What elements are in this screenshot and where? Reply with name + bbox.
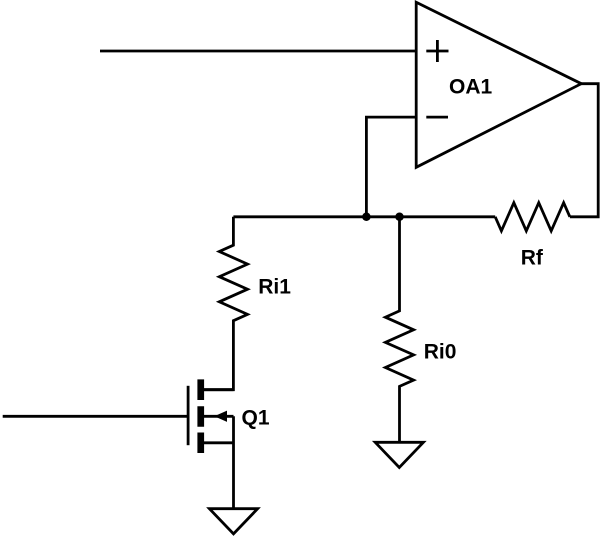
svg-text:Q1: Q1 — [242, 407, 270, 430]
svg-text:OA1: OA1 — [449, 75, 493, 98]
svg-text:Ri0: Ri0 — [424, 341, 457, 364]
svg-text:Rf: Rf — [521, 247, 544, 270]
svg-text:Ri1: Ri1 — [258, 275, 291, 298]
